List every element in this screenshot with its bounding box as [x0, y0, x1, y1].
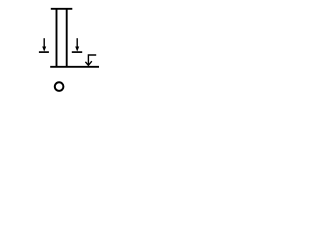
light arrow 2 shaft: [76, 38, 78, 48]
current hook arrow head: [85, 61, 91, 65]
anode top bar: [51, 8, 73, 10]
light arrow 2 bar: [72, 51, 82, 53]
light arrow 1 shaft: [43, 38, 45, 48]
wire left leg: [56, 8, 58, 68]
wire right leg: [66, 8, 68, 68]
light arrow 1 bar: [39, 51, 49, 53]
light arrow 1 head: [42, 47, 46, 52]
current hook arrow arm: [88, 55, 96, 65]
terminal circle: [55, 82, 64, 91]
light arrow 2 head: [75, 47, 79, 52]
cathode plate line: [50, 66, 99, 68]
